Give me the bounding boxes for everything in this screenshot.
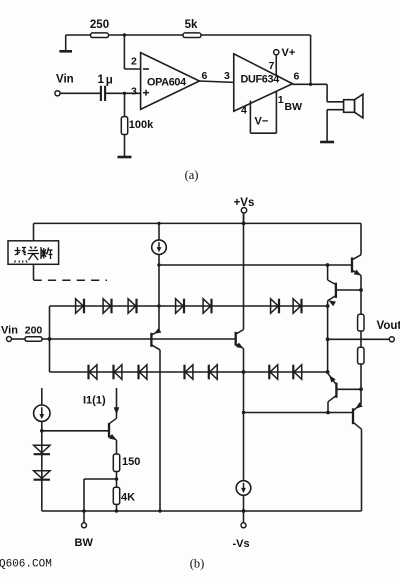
svg-text:150: 150 (122, 456, 140, 468)
capacitor C1 1u (100, 86, 102, 101)
QP1 collector slant (353, 422, 362, 429)
ground G3 speaker (320, 141, 334, 144)
diode D10 (139, 365, 147, 380)
diode D13 (270, 365, 278, 380)
svg-text:BW: BW (75, 537, 94, 549)
terminal Vout (389, 337, 394, 342)
transistor QN1 (NPN output top) (351, 257, 353, 272)
svg-text:BW: BW (285, 101, 303, 113)
svg-text:μ: μ (106, 75, 113, 87)
svg-text:V−: V− (255, 116, 269, 128)
wire pin 1 BW down (275, 91, 277, 133)
diode D1 (76, 299, 84, 314)
node QP1e/QP2b (359, 387, 363, 391)
wire R7 to R8 (116, 472, 118, 488)
svg-text:3: 3 (224, 70, 230, 82)
diode D12 (210, 365, 218, 380)
terminal +Vs (241, 208, 246, 213)
wire BW terminal drop (83, 511, 85, 523)
diode D8 (89, 365, 97, 380)
wire thermal box down (33, 264, 35, 280)
diode D14 (294, 365, 302, 380)
wire rail to CS1 (158, 223, 160, 240)
node junction R1/R2/pin2 (123, 33, 126, 36)
wire U1 out to U2 in (199, 81, 233, 82)
wire QN2 emitter to row (327, 301, 329, 306)
wire QN2 collector up (327, 265, 329, 280)
wire pin4-pin1 join (250, 132, 276, 134)
QN2 base wire (336, 289, 361, 291)
svg-text:DUF634: DUF634 (241, 74, 280, 86)
wire pin 7 to V+ (275, 55, 277, 76)
input terminal Vin (a) (55, 91, 60, 96)
wire QP1 base line (244, 412, 354, 414)
svg-text:Vout: Vout (377, 320, 400, 332)
resistor R4 200 (25, 337, 42, 342)
node QP2c/base line (326, 411, 330, 415)
transistor QA (PNP input) (150, 333, 152, 347)
svg-text:6: 6 (202, 70, 208, 82)
QN1 emitter slant (352, 270, 361, 275)
node output mid (326, 337, 330, 341)
wire between output resistors (360, 331, 362, 347)
transistor QP1 (PNP output bottom) (352, 408, 354, 424)
node QN1e/QN2b (359, 288, 363, 292)
wire top +Vs rail (34, 222, 362, 224)
ground G2 (118, 156, 132, 159)
wire feedback vertical (310, 35, 312, 84)
wire bottom -Vs rail (42, 510, 362, 512)
wire Vin to C1 (60, 92, 100, 94)
wire C1 to pin 3 (105, 92, 141, 94)
wire QN1 base line (159, 264, 352, 266)
diode D11 (185, 365, 193, 380)
resistor R6 output bottom (358, 347, 364, 364)
QN2 collector slant (328, 280, 336, 285)
svg-text:100k: 100k (129, 119, 154, 131)
terminal -Vs (241, 523, 246, 528)
svg-text:Vin: Vin (56, 74, 74, 86)
op-amp U1 OPA604 triangle (141, 53, 200, 110)
node CS3 rail (242, 509, 246, 513)
wire input column (49, 306, 51, 372)
diode D6 (271, 299, 279, 314)
resistor R7 150 (113, 454, 119, 472)
wire center column to CS3 (243, 348, 245, 480)
node +Vs rail junction (242, 222, 246, 226)
wire R4 to node (42, 338, 50, 340)
QP2 base wire (336, 388, 361, 390)
dashed control line (34, 279, 108, 281)
QN2 emitter arrow (327, 298, 336, 306)
plus sign pin3 (143, 92, 149, 94)
svg-text:3: 3 (131, 86, 137, 98)
diode D7 (293, 299, 301, 314)
transistor QB (NPN input) (235, 332, 237, 346)
resistor R1 250 (91, 33, 109, 38)
wire QE base line (42, 430, 109, 432)
I1 current arrow (114, 407, 120, 415)
wire lower diode row (50, 371, 328, 373)
node upper row end (326, 304, 330, 308)
svg-text:I1(1): I1(1) (83, 394, 106, 406)
wire I1 collector feed (116, 388, 118, 418)
svg-text:6: 6 (294, 71, 300, 83)
QN1 collector slant (352, 255, 361, 260)
wire to R3 (124, 93, 126, 116)
node CS1 rail junction (157, 222, 160, 225)
wire upper diode row (50, 305, 328, 307)
wire Vin to R4 (12, 338, 26, 340)
wire pin 4 down (249, 101, 251, 134)
diode D9 (114, 365, 122, 380)
current source CS3 (236, 481, 251, 496)
node lower row end (326, 370, 330, 374)
QP1 emitter arrow (354, 402, 363, 411)
QE emitter slant (109, 435, 117, 440)
svg-text:2: 2 (131, 56, 137, 68)
wire stub to CS2 (41, 388, 43, 405)
wire to pin 2 (124, 68, 140, 70)
wire Vout line (328, 338, 390, 340)
wire U2 output (293, 83, 328, 85)
node QA col / bottom rail (158, 509, 161, 512)
node BW rail (82, 509, 86, 513)
text re (hot) glyph (15, 247, 53, 263)
terminal Vin (b) (7, 337, 12, 342)
wire R3 to ground (124, 135, 126, 157)
node QB emitter / lower row (242, 370, 246, 374)
thermal shutdown box (re guan duan) (8, 241, 59, 264)
svg-text:OPA604: OPA604 (147, 77, 186, 89)
wire R6 to QP1 emitter (360, 364, 362, 404)
wire +Vs column upper (243, 213, 245, 330)
svg-text:(b): (b) (190, 557, 205, 571)
node input junction (48, 337, 52, 341)
QE collector slant (109, 418, 117, 424)
svg-text:4: 4 (241, 105, 247, 117)
svg-text:5k: 5k (185, 19, 198, 31)
node center/base line (242, 411, 245, 414)
svg-text:200: 200 (25, 325, 43, 337)
wire speaker - return (327, 109, 344, 111)
wire inner output column (327, 306, 329, 372)
wire +Vs to rail (243, 213, 245, 223)
QP2 collector slant (328, 395, 336, 401)
terminal V+ (274, 50, 279, 55)
QE emitter arrow (109, 434, 118, 442)
node feedback junction (309, 83, 312, 86)
svg-text:Q606.COM: Q606.COM (0, 559, 52, 571)
QB emitter slant (236, 344, 244, 349)
wire R8 to rail (116, 504, 118, 511)
node pin3/R3 junction (123, 92, 126, 95)
wire to ground G1 (65, 35, 67, 51)
svg-text:Vin: Vin (1, 324, 18, 336)
svg-text:-Vs: -Vs (233, 538, 250, 550)
wire QP2 collector down (327, 402, 329, 413)
wire QA collector to -Vs rail (159, 350, 161, 511)
transistor QP2 (PNP driver) (335, 383, 337, 398)
diode D3 (128, 299, 136, 314)
QP2 emitter arrow (327, 374, 336, 383)
QP1 emitter slant (353, 404, 361, 410)
transistor QE (NPN bias) (108, 423, 110, 438)
diode D2 (103, 299, 111, 314)
diode D5 (203, 299, 211, 314)
node CS1/base line (157, 263, 160, 266)
svg-text:250: 250 (90, 19, 109, 31)
diode D15 (34, 445, 50, 453)
node QN2 collector junction (326, 263, 330, 267)
wire QP1 collector to rail (361, 429, 363, 511)
current source CS1 (152, 240, 167, 255)
wire QN1 emitter down (360, 275, 362, 314)
resistor R3 100k (121, 117, 127, 135)
wire to speaker + (326, 84, 328, 102)
buffer U2 DUF634 triangle (234, 54, 293, 112)
QB emitter arrow (236, 342, 245, 350)
wire top feedback rail (a) (66, 34, 311, 36)
QN1 emitter arrow (354, 270, 363, 278)
svg-text:4K: 4K (121, 492, 135, 504)
diode D4 (176, 299, 184, 314)
svg-text:7: 7 (269, 60, 275, 72)
wire QE emitter to R7 (116, 440, 118, 454)
terminal BW (82, 523, 87, 528)
current source CS2 (34, 405, 50, 421)
QA emitter arrow (152, 328, 161, 336)
svg-text:1: 1 (98, 74, 105, 86)
wire -Vs terminal drop (243, 511, 245, 523)
QB collector slant (236, 330, 244, 335)
resistor R8 4K (113, 487, 119, 504)
svg-text:(a): (a) (185, 168, 199, 182)
minus sign pin2 (143, 68, 149, 70)
node R7/R8/BW (115, 477, 119, 481)
wire rail to QN1 collector (360, 223, 362, 254)
wire CS2 down chain (41, 421, 43, 511)
speaker LS1 (344, 100, 355, 113)
resistor R2 5k (183, 33, 201, 38)
wire rail to thermal box (33, 223, 35, 240)
svg-text:V+: V+ (282, 47, 296, 59)
wire CS1 down to QA emitter (158, 255, 160, 332)
svg-text:1: 1 (278, 94, 284, 106)
resistor R5 output top (358, 314, 364, 331)
QN2 emitter slant (328, 296, 336, 301)
node CS2/QE base (40, 429, 44, 433)
diode D16 (34, 471, 50, 479)
wire input base rail (50, 338, 236, 340)
wire pin2 drop (123, 35, 125, 69)
QA collector slant (151, 345, 160, 350)
node R8 rail (115, 509, 118, 512)
node CS1/diode row (157, 304, 160, 307)
wire to BW (84, 478, 117, 480)
transistor QN2 (NPN driver) (335, 283, 337, 298)
ground G1 (59, 50, 72, 53)
